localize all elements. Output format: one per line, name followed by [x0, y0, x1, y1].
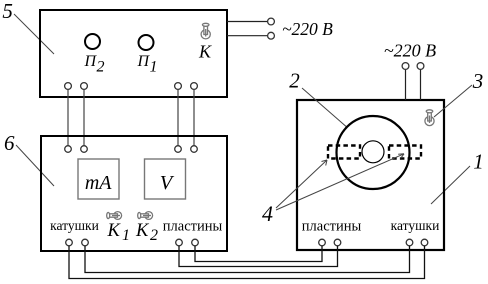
switch 3 (toggle icon) [425, 110, 434, 126]
svg-text:~220 В: ~220 В [384, 41, 436, 61]
terminal (block1 bottom, coil b) [421, 239, 428, 246]
terminal (block6 top 4) [191, 146, 198, 153]
milliammeter mA [78, 159, 119, 199]
svg-text:4: 4 [262, 201, 273, 226]
terminal (block6 top 1) [65, 146, 72, 153]
terminal (block6 bottom, plate b) [192, 239, 199, 246]
block 1 (tube unit) [297, 100, 444, 250]
deflection plate right (dashed, 4) [389, 146, 421, 159]
wire mains top 1 [405, 69, 407, 100]
svg-text:2: 2 [97, 58, 105, 75]
wire mains top 2 [420, 69, 422, 100]
svg-text:3: 3 [472, 69, 484, 93]
svg-text:катушки: катушки [50, 218, 99, 233]
voltmeter V [145, 159, 186, 199]
terminal (block1 bottom, plate b) [334, 239, 341, 246]
block 6 (measurement unit) [41, 136, 227, 251]
switch К1 (toggle icon) [107, 212, 122, 220]
terminal (block1 bottom, coil a) [406, 239, 413, 246]
knob П1 [139, 35, 154, 50]
svg-text:пластины: пластины [302, 219, 362, 235]
terminal (block6 bottom, coil b) [82, 239, 89, 246]
terminal (block5 bottom, coil b) [81, 83, 88, 90]
wire block5 to block6 (4) [193, 89, 195, 145]
wire coil inner (block6 to block1) [85, 246, 410, 273]
terminal (block5 bottom, plate b) [191, 83, 198, 90]
svg-text:К: К [198, 42, 212, 62]
svg-text:К: К [135, 221, 150, 241]
leader line to block 6 [16, 145, 54, 186]
terminal (block1 bottom, plate a) [319, 239, 326, 246]
svg-text:mA: mA [85, 172, 112, 194]
terminal (block6 bottom, coil a) [66, 239, 73, 246]
switch К (toggle icon) [201, 23, 210, 39]
deflection plate left (dashed, 4) [328, 146, 360, 159]
svg-text:5: 5 [2, 0, 13, 23]
block 5 (control unit) [40, 10, 227, 97]
leader line to right plate (with arrow) [276, 154, 404, 210]
mains terminal top 2 [417, 63, 424, 70]
wire plate outer (block6 to block1) [179, 246, 338, 267]
svg-text:1: 1 [150, 58, 158, 75]
leader line to block 5 [14, 14, 54, 54]
svg-text:1: 1 [122, 227, 130, 244]
leader line to block 1 [431, 166, 470, 204]
wire to mains terminal upper [227, 21, 268, 23]
terminal (block5 bottom, coil a) [65, 83, 72, 90]
leader line to left plate (with arrow) [276, 160, 327, 208]
mains terminal upper [268, 18, 275, 25]
wire plate inner (block6 to block1) [195, 246, 322, 262]
wire to mains terminal lower [227, 35, 268, 37]
leader line to tube circle [302, 88, 346, 127]
wire block5 to block6 (2) [83, 89, 85, 145]
terminal (block6 bottom, plate a) [176, 239, 183, 246]
svg-text:~220 В: ~220 В [282, 19, 333, 39]
svg-text:П: П [137, 53, 151, 70]
mains terminal lower [268, 32, 275, 39]
switch К2 (toggle icon) [138, 212, 153, 220]
beam spot circle [362, 141, 384, 163]
wire block5 to block6 (3) [177, 89, 179, 145]
svg-text:1: 1 [473, 150, 484, 174]
wire block5 to block6 (1) [67, 89, 69, 145]
svg-text:К: К [107, 221, 122, 241]
svg-text:катушки: катушки [391, 218, 440, 233]
wire coil outer (block6 to block1) [69, 246, 425, 279]
mains terminal top 1 [402, 63, 409, 70]
svg-text:6: 6 [4, 131, 15, 155]
terminal (block6 top 2) [81, 146, 88, 153]
terminal (block5 bottom, plate a) [175, 83, 182, 90]
tube screen circle (2) [337, 116, 410, 189]
svg-text:П: П [84, 53, 98, 70]
knob П2 [85, 34, 100, 49]
terminal (block6 top 3) [175, 146, 182, 153]
leader line to switch 3 [434, 85, 472, 117]
svg-text:2: 2 [150, 227, 158, 244]
svg-text:2: 2 [289, 69, 300, 93]
svg-text:пластины: пластины [163, 219, 223, 235]
